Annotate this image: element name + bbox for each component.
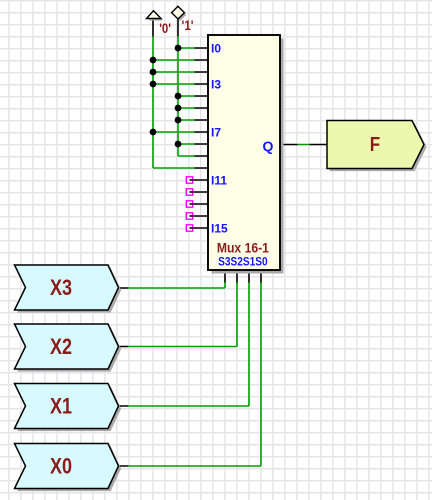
svg-text:I7: I7 [211,126,221,140]
svg-text:X1: X1 [50,395,72,419]
svg-text:X2: X2 [50,336,72,360]
svg-text:S3S2S1S0: S3S2S1S0 [218,256,268,269]
svg-text:Q: Q [263,138,274,154]
svg-text:X3: X3 [50,277,72,301]
svg-text:I3: I3 [211,78,221,92]
svg-text:'0': '0' [159,21,171,36]
svg-text:X0: X0 [50,455,72,479]
svg-text:I0: I0 [211,42,221,56]
svg-text:F: F [370,133,380,156]
svg-text:I15: I15 [211,222,228,236]
svg-text:I11: I11 [211,174,227,188]
svg-text:Mux 16-1: Mux 16-1 [217,240,269,256]
svg-text:'1': '1' [182,18,194,33]
